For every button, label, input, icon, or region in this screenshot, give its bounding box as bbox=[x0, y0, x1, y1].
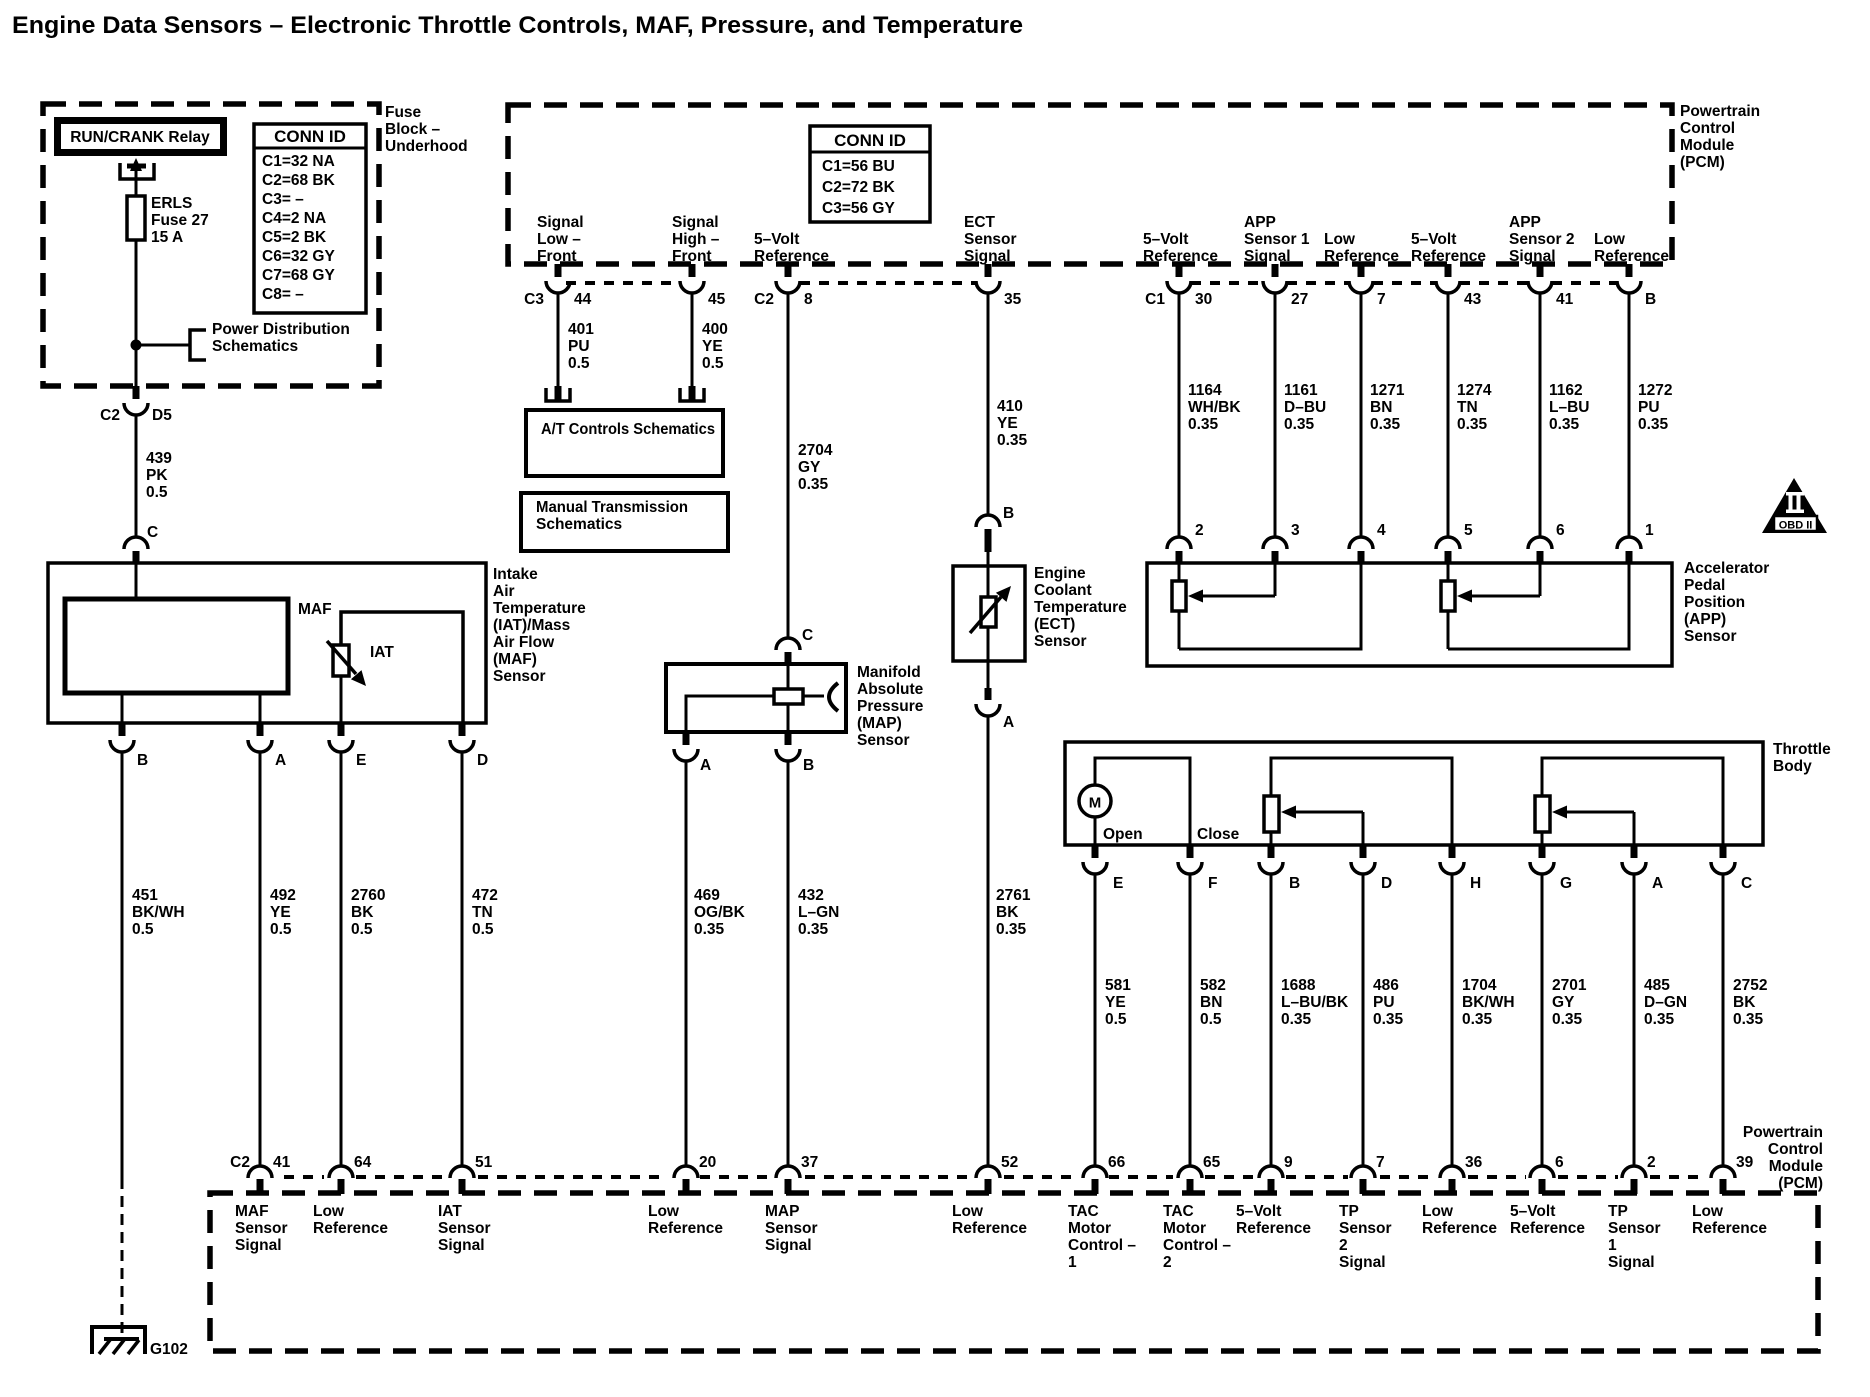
connector throttle body pin B bbox=[1259, 845, 1300, 892]
svg-text:2: 2 bbox=[1647, 1154, 1656, 1171]
svg-text:Air Flow: Air Flow bbox=[493, 634, 555, 651]
connector PCM top pin 30 bbox=[1145, 264, 1212, 308]
sensor name label Manifold Absolute Pressure (MAP) Sensor bbox=[857, 664, 924, 749]
svg-text:(MAP): (MAP) bbox=[857, 715, 902, 732]
wire 2704 GY 0.35 bbox=[787, 293, 790, 639]
svg-text:BK/WH: BK/WH bbox=[132, 904, 185, 921]
PCM input label 5–Volt Reference bbox=[1510, 1203, 1585, 1237]
svg-text:Fuse 27: Fuse 27 bbox=[151, 212, 209, 229]
svg-text:43: 43 bbox=[1464, 291, 1482, 308]
svg-text:Sensor: Sensor bbox=[438, 1220, 491, 1237]
svg-text:B: B bbox=[137, 752, 148, 769]
wire relay to fuse bbox=[135, 194, 138, 197]
connector PCM top pin 41 bbox=[1528, 264, 1574, 308]
connector PCM bottom pin 39 bbox=[1711, 1154, 1754, 1194]
sensor name label Intake Air Temperature (IAT)/Mass Air Flow (MAF) Sensor bbox=[493, 566, 586, 685]
PCM top label bbox=[1680, 103, 1760, 171]
svg-text:A: A bbox=[1003, 714, 1014, 731]
svg-text:WH/BK: WH/BK bbox=[1188, 399, 1241, 416]
connector APP pin 4 bbox=[1349, 522, 1386, 564]
svg-text:Power Distribution: Power Distribution bbox=[212, 321, 350, 338]
svg-text:Signal: Signal bbox=[1244, 248, 1291, 265]
svg-text:Control: Control bbox=[1768, 1141, 1823, 1158]
wire 439 PK 0.5 bbox=[135, 415, 138, 538]
svg-text:5–Volt: 5–Volt bbox=[1411, 231, 1456, 248]
PCM input label IAT Sensor Signal bbox=[438, 1203, 491, 1254]
connector throttle body pin A bbox=[1622, 845, 1663, 892]
svg-text:YE: YE bbox=[270, 904, 291, 921]
wire label 492 YE 0.5 bbox=[270, 887, 296, 938]
svg-text:Powertrain: Powertrain bbox=[1743, 1124, 1823, 1141]
svg-text:64: 64 bbox=[354, 1154, 372, 1171]
svg-text:G102: G102 bbox=[150, 1341, 188, 1358]
svg-text:Sensor: Sensor bbox=[235, 1220, 288, 1237]
connector throttle body pin C bbox=[1711, 845, 1752, 892]
svg-text:Engine Data Sensors – Electron: Engine Data Sensors – Electronic Throttl… bbox=[12, 12, 1023, 39]
svg-text:581: 581 bbox=[1105, 977, 1131, 994]
svg-text:Reference: Reference bbox=[1411, 248, 1486, 265]
MAF inner element box bbox=[65, 563, 288, 693]
wire 451 BK/WH 0.5 to ground bbox=[121, 752, 124, 1338]
svg-text:Block –: Block – bbox=[385, 121, 441, 138]
svg-text:5–Volt: 5–Volt bbox=[1236, 1203, 1281, 1220]
svg-text:TN: TN bbox=[1457, 399, 1478, 416]
terminal bracket wire 44 bbox=[546, 386, 570, 401]
svg-text:0.35: 0.35 bbox=[1638, 416, 1669, 433]
wire 1274 TN 0.35 bbox=[1447, 293, 1450, 538]
connector PCM top pin 45 bbox=[680, 264, 726, 308]
svg-text:APP: APP bbox=[1244, 214, 1276, 231]
fuse block label bbox=[385, 104, 468, 155]
wire label 1271 BN 0.35 bbox=[1370, 382, 1405, 433]
svg-text:Schematics: Schematics bbox=[536, 516, 622, 533]
svg-text:2761: 2761 bbox=[996, 887, 1031, 904]
svg-text:6: 6 bbox=[1556, 522, 1565, 539]
PCM output label 5–Volt Reference bbox=[1411, 231, 1486, 265]
svg-text:(APP): (APP) bbox=[1684, 611, 1726, 628]
svg-text:51: 51 bbox=[475, 1154, 493, 1171]
svg-text:BN: BN bbox=[1200, 994, 1222, 1011]
svg-text:Signal: Signal bbox=[964, 248, 1011, 265]
wire label 451 BK/WH 0.5 bbox=[132, 887, 185, 938]
wire label 1688 L–BU/BK 0.35 bbox=[1281, 977, 1349, 1028]
svg-text:5–Volt: 5–Volt bbox=[754, 231, 799, 248]
PCM input label TP Sensor 2 Signal bbox=[1339, 1203, 1392, 1271]
svg-text:Reference: Reference bbox=[1692, 1220, 1767, 1237]
svg-text:0.35: 0.35 bbox=[1644, 1011, 1675, 1028]
wire label 1161 D–BU 0.35 bbox=[1284, 382, 1326, 433]
svg-text:36: 36 bbox=[1465, 1154, 1483, 1171]
svg-text:20: 20 bbox=[699, 1154, 716, 1171]
svg-text:582: 582 bbox=[1200, 977, 1226, 994]
svg-text:RUN/CRANK Relay: RUN/CRANK Relay bbox=[70, 129, 210, 146]
wire label 410 YE 0.35 bbox=[997, 398, 1028, 449]
connector PCM bottom pin 6 bbox=[1530, 1154, 1564, 1194]
svg-text:Control –: Control – bbox=[1068, 1237, 1136, 1254]
svg-text:C6=32 GY: C6=32 GY bbox=[262, 248, 335, 265]
svg-text:44: 44 bbox=[574, 291, 592, 308]
svg-text:E: E bbox=[1113, 875, 1123, 892]
svg-text:Signal: Signal bbox=[235, 1237, 282, 1254]
svg-text:0.5: 0.5 bbox=[702, 355, 724, 372]
svg-text:Underhood: Underhood bbox=[385, 138, 468, 155]
svg-text:IAT: IAT bbox=[438, 1203, 462, 1220]
svg-text:Position: Position bbox=[1684, 594, 1745, 611]
connector MAP pin B bbox=[776, 732, 814, 774]
throttle body label bbox=[1773, 741, 1831, 775]
svg-text:Low: Low bbox=[1692, 1203, 1724, 1220]
svg-text:Intake: Intake bbox=[493, 566, 538, 583]
connector MAP pin C bbox=[776, 627, 813, 664]
svg-text:Front: Front bbox=[672, 248, 712, 265]
svg-text:A/T Controls Schematics: A/T Controls Schematics bbox=[541, 421, 715, 438]
svg-text:D5: D5 bbox=[152, 407, 172, 424]
svg-text:Temperature: Temperature bbox=[493, 600, 586, 617]
PCM input label MAF Sensor Signal bbox=[235, 1203, 288, 1254]
wire label 486 PU 0.35 bbox=[1373, 977, 1404, 1028]
svg-text:45: 45 bbox=[708, 291, 726, 308]
svg-text:F: F bbox=[1208, 875, 1217, 892]
svg-text:472: 472 bbox=[472, 887, 498, 904]
PCM input label Low Reference bbox=[313, 1203, 388, 1237]
svg-text:0.35: 0.35 bbox=[1373, 1011, 1404, 1028]
connector throttle body pin H bbox=[1440, 845, 1481, 892]
svg-text:39: 39 bbox=[1736, 1154, 1754, 1171]
svg-text:Low –: Low – bbox=[537, 231, 581, 248]
svg-text:D–BU: D–BU bbox=[1284, 399, 1326, 416]
connector C at MAF bbox=[124, 524, 158, 563]
motor close wire loop bbox=[1095, 758, 1240, 845]
wire 2761 BK 0.35 bbox=[987, 716, 990, 1166]
svg-text:E: E bbox=[356, 752, 366, 769]
svg-text:1: 1 bbox=[1608, 1237, 1617, 1254]
svg-text:Signal: Signal bbox=[672, 214, 719, 231]
svg-text:GY: GY bbox=[1552, 994, 1575, 1011]
svg-text:YE: YE bbox=[1105, 994, 1126, 1011]
svg-text:1272: 1272 bbox=[1638, 382, 1672, 399]
svg-text:IAT: IAT bbox=[370, 644, 394, 661]
connector PCM top pin 8 bbox=[754, 264, 813, 308]
svg-text:Low: Low bbox=[313, 1203, 345, 1220]
svg-text:C3=56 GY: C3=56 GY bbox=[822, 200, 895, 217]
CONN ID table (fuse block) bbox=[254, 124, 366, 313]
svg-text:TAC: TAC bbox=[1068, 1203, 1099, 1220]
PCM bottom dashed box bbox=[210, 1193, 1818, 1351]
svg-text:7: 7 bbox=[1377, 291, 1386, 308]
APP pot1 low side to pin 4 bbox=[1179, 563, 1361, 649]
svg-text:BK/WH: BK/WH bbox=[1462, 994, 1515, 1011]
svg-text:C: C bbox=[147, 524, 158, 541]
connector PCM top pin 44 bbox=[524, 264, 591, 308]
svg-text:C1: C1 bbox=[1145, 291, 1165, 308]
APP pot2 low side to pin 1 bbox=[1448, 563, 1629, 649]
svg-text:Air: Air bbox=[493, 583, 515, 600]
connector PCM bottom pin 7 bbox=[1351, 1154, 1385, 1194]
wire label 581 YE 0.5 bbox=[1105, 977, 1131, 1028]
PCM output label ECT Sensor Signal bbox=[964, 214, 1017, 265]
connector PCM top pin 27 bbox=[1263, 264, 1308, 308]
ground label G102 bbox=[150, 1341, 188, 1358]
svg-text:YE: YE bbox=[702, 338, 723, 355]
svg-text:2701: 2701 bbox=[1552, 977, 1587, 994]
svg-text:GY: GY bbox=[798, 459, 821, 476]
connector C2 pin D5 bbox=[100, 386, 172, 424]
PCM output label Signal High – Front bbox=[672, 214, 720, 265]
svg-text:52: 52 bbox=[1001, 1154, 1018, 1171]
svg-text:Reference: Reference bbox=[1510, 1220, 1585, 1237]
TP potentiometer 2 (sensor 1) bbox=[1535, 758, 1723, 845]
svg-text:Control: Control bbox=[1680, 120, 1735, 137]
svg-text:439: 439 bbox=[146, 450, 172, 467]
svg-text:C: C bbox=[1741, 875, 1752, 892]
connector throttle body pin F bbox=[1178, 845, 1217, 892]
svg-text:0.35: 0.35 bbox=[1281, 1011, 1312, 1028]
svg-text:0.35: 0.35 bbox=[1733, 1011, 1764, 1028]
svg-text:65: 65 bbox=[1203, 1154, 1221, 1171]
svg-text:Pedal: Pedal bbox=[1684, 577, 1725, 594]
connector PCM bottom pin 51 bbox=[450, 1154, 493, 1194]
svg-text:M: M bbox=[1089, 795, 1102, 812]
connector MAF pin A bbox=[248, 723, 286, 769]
MAP vacuum port arc bbox=[803, 683, 838, 711]
svg-text:Signal: Signal bbox=[1608, 1254, 1655, 1271]
APP potentiometer 2 bbox=[1441, 563, 1455, 649]
svg-text:0.5: 0.5 bbox=[351, 921, 373, 938]
svg-text:66: 66 bbox=[1108, 1154, 1126, 1171]
wire label 2701 GY 0.35 bbox=[1552, 977, 1587, 1028]
svg-text:1: 1 bbox=[1645, 522, 1654, 539]
svg-text:L–BU: L–BU bbox=[1549, 399, 1589, 416]
svg-text:D: D bbox=[477, 752, 488, 769]
power distribution schematics label bbox=[212, 321, 350, 355]
svg-text:Low: Low bbox=[1324, 231, 1356, 248]
sensor name label Engine Coolant Temperature (ECT) Sensor bbox=[1034, 565, 1127, 650]
PCM input label Low Reference bbox=[648, 1203, 723, 1237]
svg-text:C: C bbox=[802, 627, 813, 644]
svg-text:451: 451 bbox=[132, 887, 158, 904]
APP sensor name label bbox=[1684, 560, 1769, 645]
title bbox=[12, 12, 1023, 39]
svg-text:TP: TP bbox=[1608, 1203, 1628, 1220]
relay K RUN/CRANK Relay box bbox=[54, 117, 227, 156]
svg-text:BK: BK bbox=[996, 904, 1019, 921]
IAT label bbox=[370, 644, 394, 661]
svg-text:Throttle: Throttle bbox=[1773, 741, 1831, 758]
svg-text:7: 7 bbox=[1376, 1154, 1385, 1171]
throttle body box bbox=[1065, 742, 1763, 845]
svg-text:Reference: Reference bbox=[313, 1220, 388, 1237]
svg-text:G: G bbox=[1560, 875, 1572, 892]
svg-text:432: 432 bbox=[798, 887, 824, 904]
MAF label bbox=[298, 601, 332, 618]
wire 401 PU 0.5 bbox=[557, 293, 560, 388]
wire 410 YE 0.35 bbox=[987, 293, 990, 516]
svg-text:Open: Open bbox=[1103, 826, 1143, 843]
svg-text:Signal: Signal bbox=[537, 214, 584, 231]
svg-text:OBD II: OBD II bbox=[1779, 520, 1813, 532]
svg-text:41: 41 bbox=[1556, 291, 1574, 308]
wire 472 TN 0.5 bbox=[461, 752, 464, 1166]
svg-text:5: 5 bbox=[1464, 522, 1473, 539]
svg-text:Low: Low bbox=[1594, 231, 1626, 248]
svg-text:8: 8 bbox=[804, 291, 813, 308]
wire label 1164 WH/BK 0.35 bbox=[1188, 382, 1241, 433]
svg-text:H: H bbox=[1470, 875, 1481, 892]
svg-text:0.35: 0.35 bbox=[1284, 416, 1315, 433]
svg-text:A: A bbox=[275, 752, 286, 769]
svg-text:Low: Low bbox=[952, 1203, 984, 1220]
svg-text:0.35: 0.35 bbox=[798, 476, 829, 493]
fuse F ERLS Fuse 27 15A bbox=[127, 196, 145, 345]
PCM input label Low Reference bbox=[1422, 1203, 1497, 1237]
svg-text:B: B bbox=[803, 757, 814, 774]
svg-text:C2=72 BK: C2=72 BK bbox=[822, 179, 896, 196]
svg-text:PU: PU bbox=[1638, 399, 1660, 416]
svg-text:B: B bbox=[1645, 291, 1656, 308]
svg-text:41: 41 bbox=[273, 1154, 291, 1171]
connector PCM top pin 43 bbox=[1436, 264, 1482, 308]
svg-text:Close: Close bbox=[1197, 826, 1240, 843]
svg-text:2704: 2704 bbox=[798, 442, 833, 459]
svg-text:3: 3 bbox=[1291, 522, 1300, 539]
svg-text:0.35: 0.35 bbox=[798, 921, 829, 938]
connector row dotted line (top) bbox=[566, 281, 1617, 285]
svg-text:1688: 1688 bbox=[1281, 977, 1316, 994]
svg-text:Body: Body bbox=[1773, 758, 1812, 775]
svg-text:Powertrain: Powertrain bbox=[1680, 103, 1760, 120]
relay pin terminal with up arrow bbox=[120, 158, 154, 196]
connector IAT pin D bbox=[450, 723, 488, 769]
TP potentiometer 1 (sensor 2) bbox=[1264, 758, 1452, 845]
svg-text:YE: YE bbox=[997, 415, 1018, 432]
MAP internal wire to pin A bbox=[686, 696, 774, 732]
svg-text:CONN ID: CONN ID bbox=[274, 127, 346, 146]
svg-text:TN: TN bbox=[472, 904, 493, 921]
svg-text:0.5: 0.5 bbox=[146, 484, 168, 501]
connector PCM bottom pin 65 bbox=[1178, 1154, 1221, 1194]
svg-text:Signal: Signal bbox=[1509, 248, 1556, 265]
svg-text:0.5: 0.5 bbox=[270, 921, 292, 938]
svg-text:5–Volt: 5–Volt bbox=[1510, 1203, 1555, 1220]
svg-text:(PCM): (PCM) bbox=[1778, 1175, 1823, 1192]
connector PCM bottom pin 37 bbox=[776, 1154, 818, 1194]
wire 400 YE 0.5 bbox=[691, 293, 694, 388]
PCM input label Low Reference bbox=[1692, 1203, 1767, 1237]
svg-text:C2=68 BK: C2=68 BK bbox=[262, 172, 336, 189]
PCM input label TAC Motor Control – 1 bbox=[1068, 1203, 1136, 1271]
wire label 582 BN 0.5 bbox=[1200, 977, 1226, 1028]
svg-text:Fuse: Fuse bbox=[385, 104, 422, 121]
svg-text:C1=32 NA: C1=32 NA bbox=[262, 153, 335, 170]
wire MAF pin A internal bbox=[259, 693, 262, 723]
PCM output label APP Sensor 2 Signal bbox=[1509, 214, 1574, 265]
wire 485 D–GN 0.35 bbox=[1633, 874, 1636, 1166]
svg-text:A: A bbox=[1652, 875, 1663, 892]
A/T Controls Schematics box bbox=[526, 410, 723, 476]
connector PCM bottom pin 52 bbox=[976, 1154, 1018, 1194]
connector MAP pin A bbox=[674, 732, 711, 774]
sensor MAF/IAT outer box bbox=[48, 563, 486, 723]
TP pot2 wiper to pin A bbox=[1552, 806, 1634, 846]
svg-text:MAF: MAF bbox=[298, 601, 332, 618]
svg-text:Sensor 1: Sensor 1 bbox=[1244, 231, 1310, 248]
svg-text:1164: 1164 bbox=[1188, 382, 1222, 399]
PCM output label Signal Low – Front bbox=[537, 214, 584, 265]
wire 2701 GY 0.35 bbox=[1541, 874, 1544, 1166]
connector PCM bottom pin 36 bbox=[1440, 1154, 1483, 1194]
wire label 469 OG/BK 0.35 bbox=[694, 887, 746, 938]
svg-text:0.35: 0.35 bbox=[1552, 1011, 1583, 1028]
wire label 2752 BK 0.35 bbox=[1733, 977, 1767, 1028]
svg-text:Module: Module bbox=[1769, 1158, 1824, 1175]
connector row dotted line (bottom) bbox=[284, 1175, 1707, 1179]
PCM output label Low Reference bbox=[1324, 231, 1399, 265]
svg-text:Motor: Motor bbox=[1068, 1220, 1111, 1237]
svg-text:C2: C2 bbox=[754, 291, 774, 308]
svg-text:2752: 2752 bbox=[1733, 977, 1767, 994]
svg-text:OG/BK: OG/BK bbox=[694, 904, 746, 921]
wire 581 YE 0.5 bbox=[1094, 874, 1097, 1166]
svg-text:Pressure: Pressure bbox=[857, 698, 924, 715]
connector IAT pin E bbox=[329, 723, 366, 769]
wire 486 PU 0.35 bbox=[1362, 874, 1365, 1166]
svg-text:Sensor: Sensor bbox=[1608, 1220, 1661, 1237]
svg-text:PU: PU bbox=[1373, 994, 1395, 1011]
svg-text:0.5: 0.5 bbox=[568, 355, 590, 372]
svg-text:5–Volt: 5–Volt bbox=[1143, 231, 1188, 248]
svg-text:C7=68 GY: C7=68 GY bbox=[262, 267, 335, 284]
connector PCM top pin 35 bbox=[976, 264, 1022, 308]
svg-text:PU: PU bbox=[568, 338, 590, 355]
svg-text:(PCM): (PCM) bbox=[1680, 154, 1725, 171]
svg-text:TAC: TAC bbox=[1163, 1203, 1194, 1220]
PCM output label 5–Volt Reference bbox=[754, 231, 829, 265]
svg-text:Reference: Reference bbox=[754, 248, 829, 265]
wire label 2760 BK 0.5 bbox=[351, 887, 385, 938]
svg-text:BK: BK bbox=[351, 904, 374, 921]
wire 469 OG/BK 0.35 bbox=[685, 761, 688, 1166]
svg-text:1: 1 bbox=[1068, 1254, 1077, 1271]
svg-text:C4=2 NA: C4=2 NA bbox=[262, 210, 326, 227]
PCM bottom label bbox=[1743, 1124, 1823, 1192]
svg-text:9: 9 bbox=[1284, 1154, 1293, 1171]
thermistor IAT symbol bbox=[327, 641, 366, 686]
wire 1271 BN 0.35 bbox=[1360, 293, 1363, 538]
svg-text:486: 486 bbox=[1373, 977, 1399, 994]
connector throttle body pin E bbox=[1083, 845, 1123, 892]
svg-text:Manifold: Manifold bbox=[857, 664, 921, 681]
APP potentiometer 1 bbox=[1172, 563, 1186, 649]
svg-text:2: 2 bbox=[1195, 522, 1204, 539]
connector PCM bottom pin 66 bbox=[1083, 1154, 1126, 1194]
sensor APP box bbox=[1147, 563, 1672, 666]
svg-text:Sensor: Sensor bbox=[857, 732, 910, 749]
svg-text:2: 2 bbox=[1163, 1254, 1172, 1271]
svg-text:2760: 2760 bbox=[351, 887, 385, 904]
connector PCM bottom pin 20 bbox=[674, 1154, 716, 1194]
wire junction to power distribution tap bbox=[136, 344, 190, 347]
PCM top dashed box bbox=[508, 105, 1672, 264]
connector APP pin 3 bbox=[1263, 522, 1300, 564]
svg-text:1161: 1161 bbox=[1284, 382, 1318, 399]
svg-text:B: B bbox=[1289, 875, 1300, 892]
IAT sub-box bbox=[341, 612, 463, 723]
wire 1704 BK/WH 0.35 bbox=[1451, 874, 1454, 1166]
svg-text:PK: PK bbox=[146, 467, 168, 484]
svg-text:Absolute: Absolute bbox=[857, 681, 924, 698]
svg-text:Reference: Reference bbox=[1324, 248, 1399, 265]
wire 2752 BK 0.35 bbox=[1722, 874, 1725, 1166]
